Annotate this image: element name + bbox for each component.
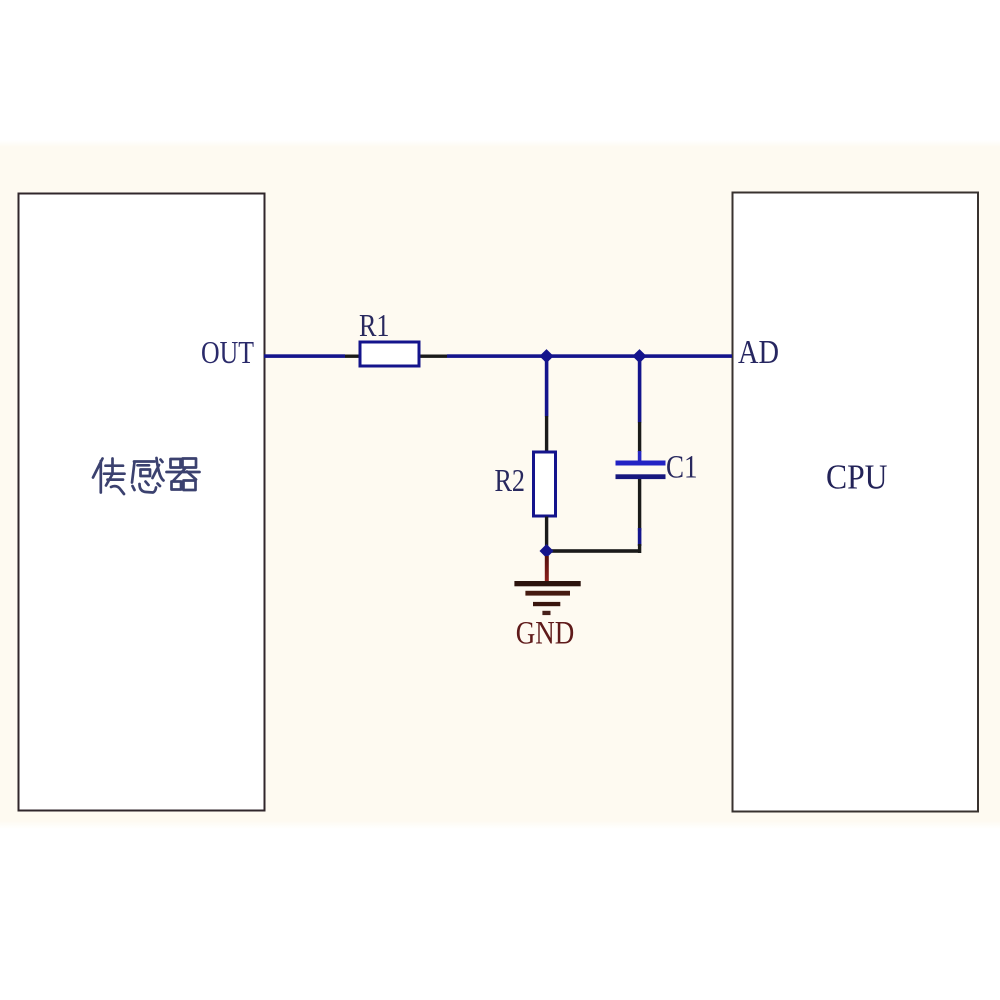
wire: C1 stem above plate (blue) <box>638 451 642 462</box>
ground bar 3 <box>533 602 560 606</box>
svg-text:CPU: CPU <box>826 458 888 497</box>
cream paper band <box>0 147 1000 821</box>
box: CPU block <box>733 193 979 812</box>
wire: to ground (dark red) <box>545 556 549 582</box>
svg-text:AD: AD <box>738 334 779 371</box>
wire: OUT to R1 pin <box>264 354 345 358</box>
node: junction 1 (diamond) <box>539 349 553 363</box>
wire: junction1 down (navy) <box>545 356 549 417</box>
pin: R2 top (black) <box>545 416 548 452</box>
pin: C1 top (black) <box>638 422 641 452</box>
node: ground junction (diamond) <box>540 544 554 558</box>
svg-text:OUT: OUT <box>201 334 254 370</box>
cream band bottom fade <box>0 821 1000 829</box>
resistor R1 <box>360 342 419 366</box>
ground bar 1 <box>514 581 580 586</box>
cream band top fade <box>0 140 1000 147</box>
pin: R1 right (black) <box>419 355 447 358</box>
node: junction 2 (diamond) <box>632 349 646 363</box>
wire: R1 to AD <box>447 354 732 358</box>
svg-text:C1: C1 <box>666 450 698 486</box>
pin: R1 left (black) <box>345 355 360 358</box>
capacitor C1 bottom plate <box>616 474 666 479</box>
ground bar 4 <box>542 611 550 615</box>
ground bar 2 <box>525 591 570 596</box>
resistor R2 <box>534 452 556 516</box>
svg-text:GND: GND <box>516 616 575 652</box>
svg-text:R2: R2 <box>495 462 526 498</box>
box: sensor block <box>19 194 265 811</box>
pin: R2 bottom (black) <box>545 517 548 547</box>
wire: C1 corner (navy) <box>638 528 642 546</box>
wire: bottom horizontal to ground node (black) <box>547 549 642 553</box>
wire: corner elbow (black) <box>638 544 641 553</box>
svg-text:R1: R1 <box>359 307 390 343</box>
label 传感器 (sensor) <box>93 458 200 494</box>
pin: C1 bottom (black) <box>638 479 641 531</box>
wire: junction2 down (navy) <box>638 356 642 423</box>
capacitor C1 top plate <box>616 461 666 466</box>
